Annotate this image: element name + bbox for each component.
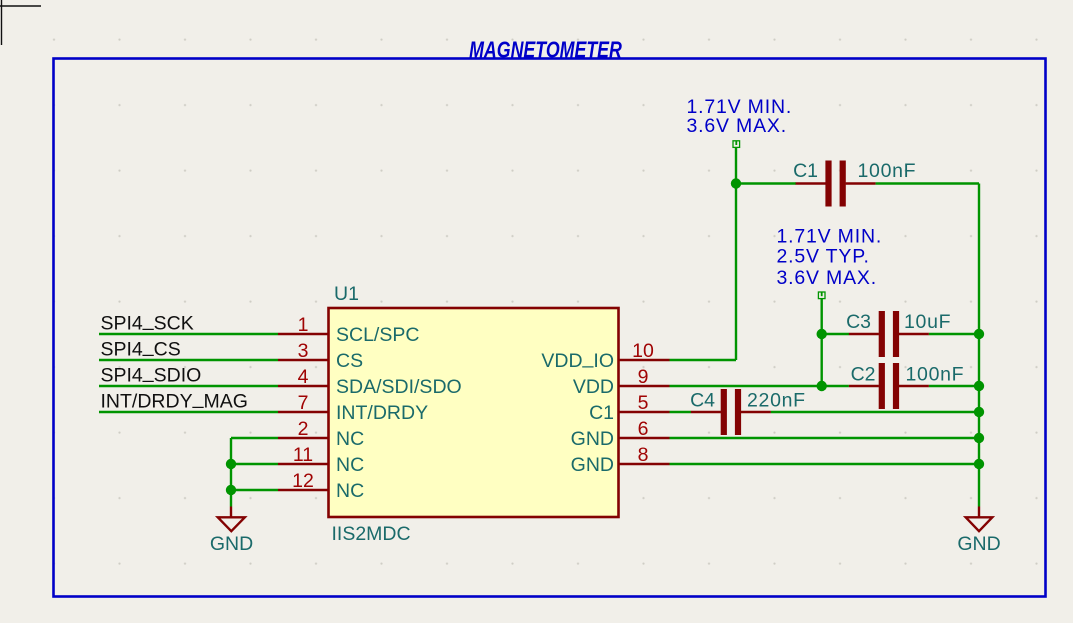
svg-text:10: 10 <box>632 340 654 362</box>
junction VDD vertical pin9 <box>817 381 827 391</box>
junction bus pin5 <box>974 407 984 417</box>
ground GND right <box>957 507 1000 556</box>
junction bus pin9 <box>974 381 984 391</box>
svg-text:1: 1 <box>298 314 309 336</box>
junction at pin11 <box>226 459 236 469</box>
pin 7 INT/DRDY <box>278 392 428 424</box>
capacitor C4 <box>690 389 806 435</box>
svg-text:CS: CS <box>336 350 363 372</box>
svg-text:100nF: 100nF <box>906 363 965 385</box>
svg-text:SCL/SPC: SCL/SPC <box>336 324 419 346</box>
svg-text:INT/DRDY_MAG: INT/DRDY_MAG <box>101 387 248 412</box>
svg-text:GND: GND <box>571 428 614 450</box>
svg-text:GND: GND <box>571 454 614 476</box>
junction at C1 row <box>731 178 741 188</box>
capacitor C1 <box>793 160 916 207</box>
svg-text:GND: GND <box>957 533 1000 555</box>
svg-text:C1: C1 <box>589 402 614 424</box>
wire pin5 row left <box>670 411 692 413</box>
pin 9 VDD <box>573 366 670 398</box>
pin 2 NC <box>278 418 364 450</box>
pin 5 C1 <box>589 392 669 424</box>
svg-text:3: 3 <box>298 340 309 362</box>
page corner mark <box>0 0 41 45</box>
junction C3 left <box>817 329 827 339</box>
wire pin5 row right <box>771 411 979 413</box>
wire NC pin11 to vertical <box>231 463 278 465</box>
svg-text:SPI4_SDIO: SPI4_SDIO <box>101 361 202 386</box>
wire pin9 row right <box>929 385 979 387</box>
svg-text:SPI4_CS: SPI4_CS <box>101 335 181 360</box>
svg-text:1.71V MIN. 3.6V MAX.: 1.71V MIN. 3.6V MAX. <box>687 96 799 137</box>
svg-text:5: 5 <box>638 392 649 414</box>
pin 4 SDA/SDI/SDO <box>278 366 462 398</box>
svg-text:SPI4_SCK: SPI4_SCK <box>101 309 194 334</box>
svg-text:GND: GND <box>210 533 253 555</box>
junction bus pin8 <box>974 459 984 469</box>
capacitor C2 <box>849 363 964 409</box>
power pin marker VDD <box>818 292 825 299</box>
wire NC vertical to ground <box>230 438 232 507</box>
svg-text:12: 12 <box>292 470 314 492</box>
svg-text:10uF: 10uF <box>904 311 951 333</box>
svg-text:1.71V MIN. 2.5V TYP. 3: 1.71V MIN. 2.5V TYP. 3.6V MAX. <box>777 226 889 289</box>
svg-text:IIS2MDC: IIS2MDC <box>332 523 411 545</box>
pin 8 GND <box>571 444 670 476</box>
svg-text:MAGNETOMETER: MAGNETOMETER <box>469 37 622 63</box>
svg-text:100nF: 100nF <box>858 160 917 182</box>
pin 10 VDD_IO <box>541 340 669 372</box>
junction bus pin6 <box>974 433 984 443</box>
svg-text:220nF: 220nF <box>747 389 806 411</box>
pin 12 NC <box>278 470 364 502</box>
svg-text:VDD: VDD <box>573 376 614 398</box>
wire SPI4_SDIO <box>99 385 278 387</box>
wire VDD vertical <box>821 299 823 387</box>
wire INT/DRDY_MAG <box>99 411 278 413</box>
junction C3 right <box>974 329 984 339</box>
svg-text:11: 11 <box>293 444 313 466</box>
wire C1 row right <box>876 182 979 184</box>
svg-text:C2: C2 <box>851 363 876 385</box>
svg-text:9: 9 <box>638 366 649 388</box>
svg-text:NC: NC <box>336 454 364 476</box>
capacitor C3 <box>846 311 951 357</box>
sheet outline rectangle <box>54 59 1046 597</box>
svg-text:7: 7 <box>298 392 309 414</box>
svg-text:6: 6 <box>638 418 649 440</box>
pin 6 GND <box>571 418 670 450</box>
power pin marker VDD_IO <box>733 141 740 148</box>
wire C3 row left <box>822 333 849 335</box>
svg-text:NC: NC <box>336 428 364 450</box>
pin 11 NC <box>278 444 364 476</box>
svg-text:NC: NC <box>336 480 364 502</box>
pin 3 CS <box>278 340 363 372</box>
wire C1 row left <box>736 182 796 184</box>
svg-text:2: 2 <box>298 418 309 440</box>
junction at pin12 <box>226 485 236 495</box>
svg-text:INT/DRDY: INT/DRDY <box>336 402 428 424</box>
wire NC pin2 to vertical <box>231 437 278 439</box>
wire pin10 to vertical <box>670 359 737 361</box>
wire right bus vertical <box>978 184 980 507</box>
svg-text:8: 8 <box>638 444 649 466</box>
svg-text:U1: U1 <box>334 283 359 305</box>
svg-text:C3: C3 <box>846 311 871 333</box>
pin 1 SCL/SPC <box>278 314 419 346</box>
wire SPI4_CS <box>99 359 278 361</box>
wire pin8 row <box>670 463 980 465</box>
svg-text:VDD_IO: VDD_IO <box>541 347 614 372</box>
wire pin9 row left <box>670 385 849 387</box>
svg-text:C1: C1 <box>793 160 818 182</box>
IC U1 body <box>329 308 619 517</box>
wire VDD_IO vertical <box>735 147 737 360</box>
wire pin6 row <box>670 437 980 439</box>
svg-text:C4: C4 <box>690 389 715 411</box>
wire C3 row right <box>929 333 979 335</box>
svg-text:4: 4 <box>298 366 309 388</box>
wire SPI4_SCK <box>99 333 278 335</box>
svg-text:SDA/SDI/SDO: SDA/SDI/SDO <box>336 376 462 398</box>
wire NC pin12 to vertical <box>231 489 278 491</box>
ground GND left <box>210 507 253 556</box>
